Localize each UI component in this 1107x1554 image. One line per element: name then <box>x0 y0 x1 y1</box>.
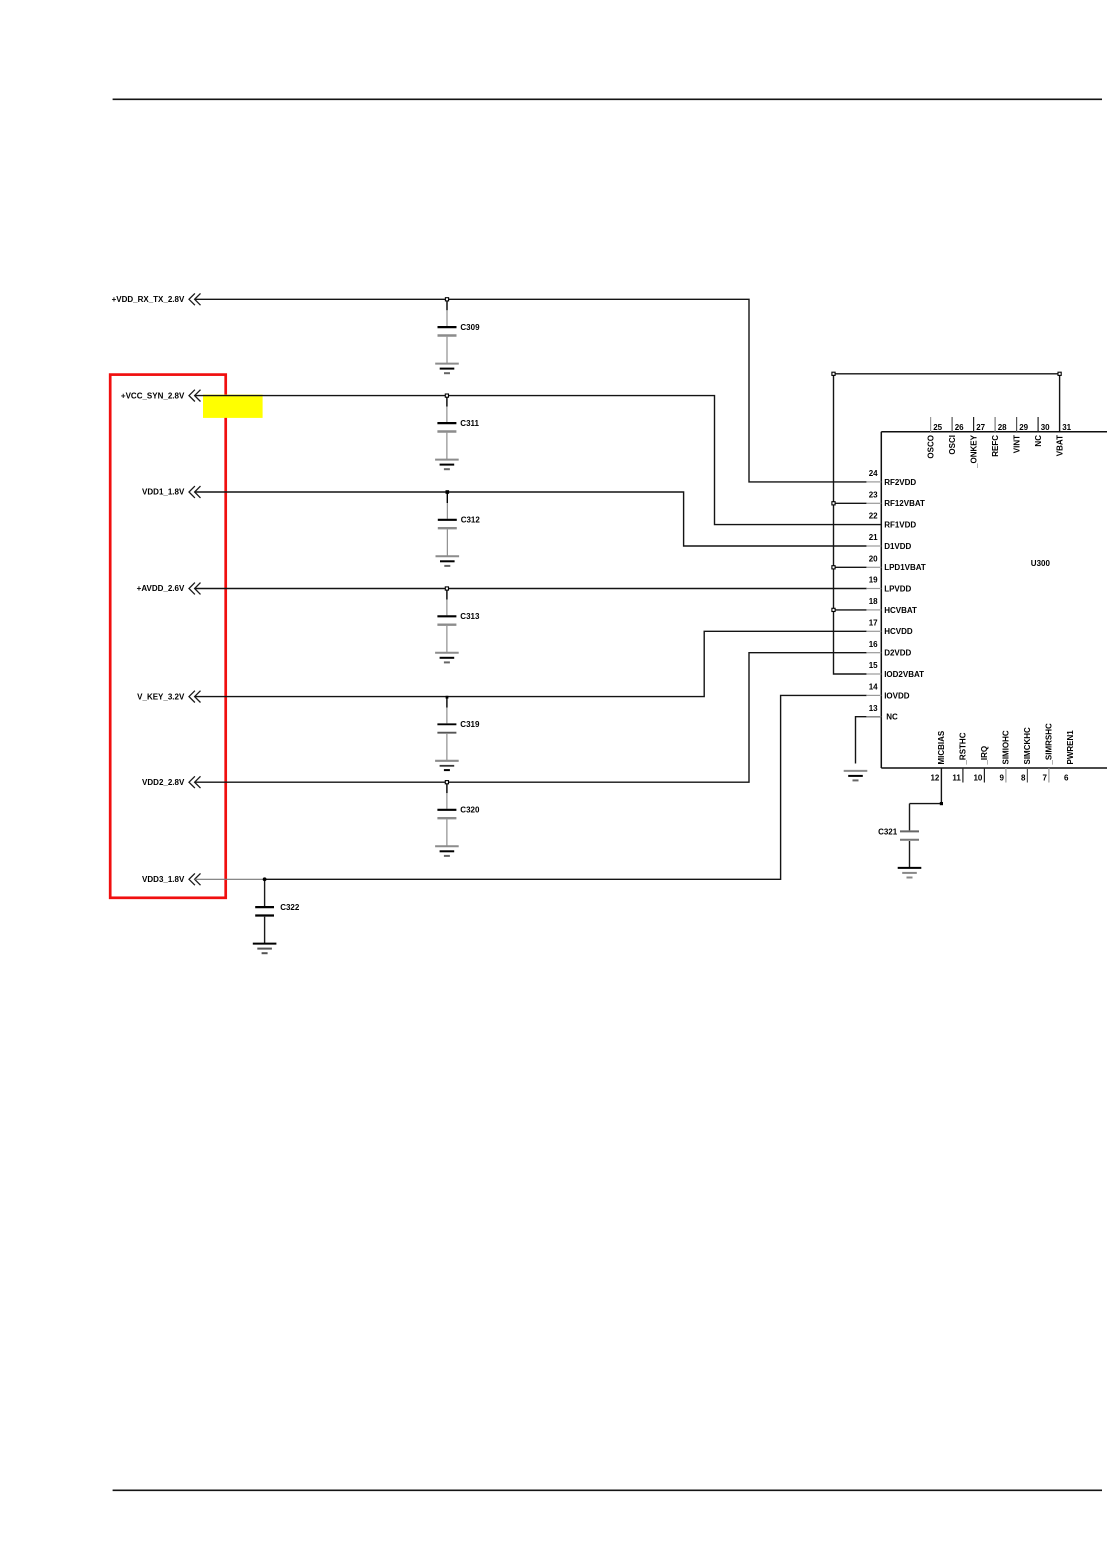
node VDD1_1.8V (net label with chevron) <box>142 486 200 498</box>
pin 9 SIMIOHC <box>999 730 1010 782</box>
junction node VBAT at pin 20 <box>832 566 835 569</box>
svg-text:17: 17 <box>869 618 878 627</box>
pin 10 _IRQ <box>973 746 989 783</box>
pin 15 IOD2VBAT <box>866 661 924 679</box>
svg-text:SIMIOHC: SIMIOHC <box>1002 730 1011 764</box>
pin 23 RF12VBAT <box>866 490 925 508</box>
pin 26 OSCI <box>948 417 964 455</box>
svg-text:V_KEY_3.2V: V_KEY_3.2V <box>137 692 185 701</box>
junction node at C309 tap <box>445 298 448 301</box>
capacitor C319 <box>437 697 480 761</box>
svg-text:VBAT: VBAT <box>1055 435 1064 456</box>
wire MICBIAS pin 12 to C321 <box>910 768 942 804</box>
svg-text:_IRQ: _IRQ <box>980 746 989 766</box>
svg-text:C321: C321 <box>878 827 898 836</box>
pin 14 IOVDD <box>866 683 909 701</box>
pin 31 VBAT <box>1055 423 1071 456</box>
svg-text:9: 9 <box>999 773 1004 782</box>
pin 6 PWREN1 <box>1064 730 1075 783</box>
svg-text:20: 20 <box>869 554 878 563</box>
pin 25 OSCO <box>926 417 942 459</box>
svg-text:U300: U300 <box>1031 559 1051 568</box>
pin 20 LPD1VBAT <box>866 554 926 572</box>
pin 29 VINT <box>1012 417 1028 453</box>
svg-text:C311: C311 <box>460 419 479 428</box>
ground of C321 <box>898 868 922 878</box>
pin 30 NC <box>1034 417 1050 447</box>
svg-text:OSCI: OSCI <box>948 435 957 455</box>
junction node at C313 tap <box>445 587 448 590</box>
wire +VCC_SYN_2.8V to pin 22 <box>195 396 882 525</box>
node +VDD_RX_TX_2.8V (net label with chevron) <box>112 293 201 305</box>
svg-text:27: 27 <box>976 423 985 432</box>
wire VBAT branch pin 18 <box>834 609 867 611</box>
svg-text:22: 22 <box>869 512 878 521</box>
ground of C312 <box>436 556 460 566</box>
ground of C319 <box>435 761 459 770</box>
svg-text:18: 18 <box>869 597 878 606</box>
svg-text:15: 15 <box>869 661 878 670</box>
junction node at MICBIAS wire corner <box>940 802 943 805</box>
svg-text:HCVBAT: HCVBAT <box>884 606 917 615</box>
svg-text:VINT: VINT <box>1012 435 1021 453</box>
svg-text:NC: NC <box>1034 435 1043 447</box>
capacitor C322 <box>255 879 300 943</box>
svg-text:MICBIAS: MICBIAS <box>937 730 946 764</box>
svg-text:VDD2_2.8V: VDD2_2.8V <box>142 778 185 787</box>
svg-text:HCVDD: HCVDD <box>884 627 913 636</box>
pin 16 D2VDD <box>866 640 911 658</box>
svg-text:12: 12 <box>930 773 939 782</box>
pin 17 HCVDD <box>866 618 913 636</box>
wire VDD3_1.8V gray segment to C322 tap <box>195 878 265 880</box>
capacitor C321 <box>878 804 919 868</box>
node +AVDD_2.6V (net label with chevron) <box>137 583 201 595</box>
svg-text:28: 28 <box>998 423 1007 432</box>
svg-text:RF2VDD: RF2VDD <box>884 478 916 487</box>
svg-text:26: 26 <box>955 423 964 432</box>
wire VBAT vertical to pin 15 <box>834 374 867 674</box>
svg-text:7: 7 <box>1042 773 1047 782</box>
wire VBAT branch pin 23 <box>834 502 867 504</box>
yellow highlight <box>203 395 263 418</box>
junction node at VBAT top left corner <box>832 372 835 375</box>
wire VDD2_2.8V to pin 16 <box>195 653 867 783</box>
svg-text:+AVDD_2.6V: +AVDD_2.6V <box>137 584 185 593</box>
pin 7 _SIMRSHC <box>1042 723 1053 783</box>
IC U300 body <box>881 432 1107 768</box>
svg-text:13: 13 <box>869 704 878 713</box>
capacitor C311 <box>437 396 479 460</box>
page bottom rule <box>113 1489 1102 1491</box>
ground of C311 <box>435 460 459 470</box>
junction node at VBAT top right corner <box>1058 372 1061 375</box>
capacitor C312 <box>438 492 481 556</box>
page top rule <box>113 98 1102 100</box>
pin 22 RF1VDD <box>869 512 917 530</box>
svg-text:C312: C312 <box>461 516 481 525</box>
wire +AVDD_2.6V to pin 19 <box>195 588 867 590</box>
svg-text:25: 25 <box>933 423 942 432</box>
pin 8 SIMCKHC <box>1021 727 1032 783</box>
junction node at C320 tap <box>445 781 448 784</box>
red highlight box <box>110 375 226 898</box>
svg-text:NC: NC <box>886 713 898 722</box>
wire VDD3_1.8V to pin 14 <box>265 695 867 879</box>
svg-text:_ONKEY: _ONKEY <box>969 434 978 469</box>
junction node VBAT at pin 23 <box>832 502 835 505</box>
wire VBAT branch pin 20 <box>834 566 867 568</box>
svg-text:30: 30 <box>1041 423 1050 432</box>
svg-text:REFC: REFC <box>991 435 1000 457</box>
pin 28 REFC <box>991 417 1007 457</box>
svg-text:C320: C320 <box>460 806 480 815</box>
svg-text:IOD2VBAT: IOD2VBAT <box>884 670 924 679</box>
node V_KEY_3.2V (net label with chevron) <box>137 691 200 703</box>
ground of C309 <box>435 364 459 374</box>
capacitor C320 <box>437 782 480 846</box>
svg-text:IOVDD: IOVDD <box>884 691 910 700</box>
svg-text:SIMCKHC: SIMCKHC <box>1023 727 1032 765</box>
ground of C322 <box>253 944 277 954</box>
pin 18 HCVBAT <box>866 597 917 615</box>
svg-text:D1VDD: D1VDD <box>884 542 911 551</box>
wire NC pin 13 to ground <box>856 717 882 764</box>
wire VDD1_1.8V to pin 21 <box>195 492 867 546</box>
wire V_KEY_3.2V to pin 17 <box>195 631 867 696</box>
pin 24 RF2VDD <box>866 469 916 487</box>
pin 11 _RSTHC <box>952 732 967 782</box>
junction node at C322 tap <box>263 877 267 881</box>
svg-text:OSCO: OSCO <box>926 435 935 459</box>
wire +VDD_RX_TX_2.8V to pin 24 <box>195 299 867 482</box>
pin 13 NC <box>866 704 898 722</box>
svg-text:8: 8 <box>1021 773 1026 782</box>
svg-text:C319: C319 <box>460 720 480 729</box>
ground of C313 <box>435 653 459 663</box>
svg-text:C313: C313 <box>460 612 480 621</box>
svg-text:RF1VDD: RF1VDD <box>884 521 916 530</box>
svg-text:11: 11 <box>952 773 961 782</box>
node VDD2_2.8V (net label with chevron) <box>142 776 200 788</box>
pin 19 LPVDD <box>866 576 911 594</box>
junction node at C312 tap <box>446 490 450 494</box>
capacitor C309 <box>438 299 481 363</box>
ground of C320 <box>435 846 459 856</box>
svg-text:PWREN1: PWREN1 <box>1066 730 1075 765</box>
junction node at C311 tap <box>445 394 448 397</box>
node +VCC_SYN_2.8V (net label with chevron) <box>121 390 201 402</box>
junction node at C319 tap <box>446 696 449 699</box>
svg-text:VDD3_1.8V: VDD3_1.8V <box>142 875 185 884</box>
pin 21 D1VDD <box>866 533 911 551</box>
svg-text:+VDD_RX_TX_2.8V: +VDD_RX_TX_2.8V <box>112 295 185 304</box>
svg-text:C322: C322 <box>280 903 300 912</box>
svg-text:VDD1_1.8V: VDD1_1.8V <box>142 488 185 497</box>
wire VBAT top run <box>834 374 1060 432</box>
svg-text:C309: C309 <box>460 323 480 332</box>
svg-text:_SIMRSHC: _SIMRSHC <box>1045 723 1054 766</box>
ground at pin 13 <box>844 771 868 781</box>
svg-text:6: 6 <box>1064 773 1069 782</box>
svg-text:D2VDD: D2VDD <box>884 649 911 658</box>
node VDD3_1.8V (net label with chevron) <box>142 873 200 885</box>
svg-text:16: 16 <box>869 640 878 649</box>
svg-text:23: 23 <box>869 490 878 499</box>
svg-text:24: 24 <box>869 469 878 478</box>
junction node VBAT at pin 18 <box>832 608 835 611</box>
pin 12 MICBIAS <box>930 730 946 782</box>
pin 27 _ONKEY <box>969 417 985 469</box>
capacitor C313 <box>437 589 480 653</box>
svg-text:10: 10 <box>973 773 982 782</box>
svg-text:21: 21 <box>869 533 878 542</box>
svg-text:31: 31 <box>1062 423 1071 432</box>
svg-text:+VCC_SYN_2.8V: +VCC_SYN_2.8V <box>121 391 185 400</box>
svg-text:LPD1VBAT: LPD1VBAT <box>884 563 926 572</box>
svg-text:14: 14 <box>869 683 878 692</box>
svg-text:29: 29 <box>1019 423 1028 432</box>
svg-text:_RSTHC: _RSTHC <box>959 732 968 765</box>
svg-text:RF12VBAT: RF12VBAT <box>884 499 925 508</box>
svg-text:19: 19 <box>869 576 878 585</box>
svg-text:LPVDD: LPVDD <box>884 584 911 593</box>
